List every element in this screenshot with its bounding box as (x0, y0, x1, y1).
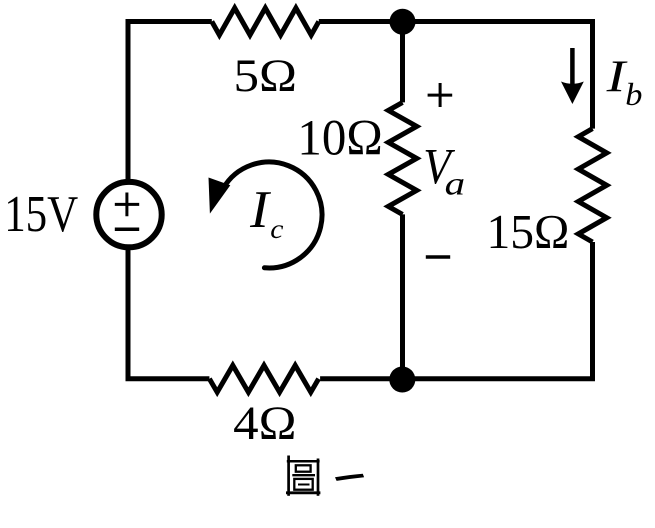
voltage source plus sign (115, 193, 139, 217)
caption figure character yi (one) (335, 474, 364, 481)
svg-text:15V: 15V (4, 186, 78, 243)
svg-text:10Ω: 10Ω (297, 109, 382, 165)
label minus sign of Va (426, 255, 450, 259)
svg-text:4Ω: 4Ω (233, 397, 296, 450)
wire middle branch upper (400, 22, 405, 103)
current arrow Ib shaft (570, 48, 575, 86)
node junction dot bottom (389, 367, 415, 393)
svg-text:a: a (445, 166, 466, 202)
svg-text:b: b (625, 77, 642, 112)
voltage source minus sign (115, 227, 139, 231)
mesh current Ic arrowhead (209, 178, 231, 214)
current arrow Ib head (561, 82, 584, 105)
resistor R4 10-ohm zigzag (388, 102, 416, 214)
svg-text:c: c (270, 213, 283, 244)
resistor R2 15-ohm zigzag (578, 129, 606, 242)
wire left upper + top-left corner (128, 22, 212, 183)
node junction dot top (390, 9, 416, 35)
mesh current Ic arc (223, 162, 322, 268)
svg-text:I: I (249, 181, 271, 239)
label plus sign of Va (428, 83, 453, 107)
resistor R1 5-ohm zigzag (212, 8, 319, 35)
wire right lower + bottom-right corner (320, 242, 592, 379)
caption figure character tu (drawn strokes) (286, 456, 320, 496)
resistor R3 4-ohm zigzag (209, 365, 318, 392)
wire top right + top-right corner down to 15-ohm (319, 22, 593, 129)
voltage source V1 circle (96, 182, 161, 247)
svg-text:I: I (605, 51, 627, 101)
svg-text:5Ω: 5Ω (234, 51, 298, 102)
svg-text:15Ω: 15Ω (487, 204, 570, 259)
wire middle branch lower (400, 214, 405, 378)
wire bottom left + bottom-left corner (128, 247, 209, 379)
